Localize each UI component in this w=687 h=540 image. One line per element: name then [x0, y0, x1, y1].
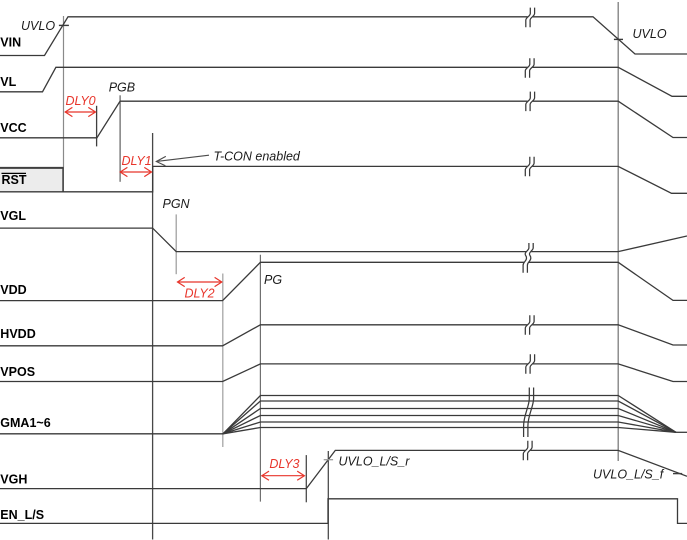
svg-text:VGH: VGH	[0, 472, 27, 486]
dimension arrow DLY2	[178, 277, 222, 286]
break mark VIN	[526, 8, 535, 28]
svg-text:GMA1~6: GMA1~6	[0, 416, 50, 430]
event line E9 EN_L/S rise extension (x=327.7)	[327, 451, 329, 540]
event line E3 PGB (x=120.1)	[119, 95, 121, 182]
break mark RST	[525, 157, 534, 177]
break mark VGH	[523, 441, 532, 460]
svg-text:VDD: VDD	[0, 283, 26, 297]
wire VDD waveform	[0, 262, 687, 300]
svg-text:DLY3: DLY3	[269, 457, 299, 471]
wire GMA1~6 bundle	[0, 396, 687, 434]
break mark VGL+VDD	[523, 243, 533, 273]
wire VGL waveform	[0, 228, 687, 252]
svg-text:PG: PG	[264, 273, 282, 287]
svg-text:UVLO_L/S_r: UVLO_L/S_r	[339, 455, 411, 469]
svg-text:PGN: PGN	[163, 197, 191, 211]
wire VL waveform	[0, 67, 687, 96]
event line E10 UVLO fall (x=618.2)	[617, 2, 619, 461]
signal label RST (with overbar)	[2, 173, 27, 187]
event line E4 DLY0 end (x=96.9)	[96, 106, 98, 147]
break mark GMA1~6	[524, 388, 534, 438]
svg-text:UVLO_L/S_f: UVLO_L/S_f	[593, 468, 665, 482]
svg-text:VPOS: VPOS	[0, 365, 35, 379]
svg-text:DLY0: DLY0	[66, 94, 96, 108]
wire VIN waveform	[0, 17, 687, 56]
wire RST waveform	[0, 166, 687, 193]
dimension arrow DLY3	[262, 471, 305, 480]
event line E8 DLY3 end (x=305.8)	[305, 455, 307, 502]
break mark VPOS	[526, 354, 535, 374]
svg-text:PGB: PGB	[109, 81, 135, 95]
tick UVLO threshold on VIN fall	[614, 38, 623, 40]
break mark HVDD	[525, 315, 534, 335]
svg-text:RST: RST	[2, 173, 27, 187]
event line E5 PGN (x=175.8)	[175, 214, 177, 274]
RST indeterminate box	[0, 167, 64, 192]
svg-text:UVLO: UVLO	[633, 27, 667, 41]
svg-text:DLY1: DLY1	[122, 154, 152, 168]
event line E1 UVLO rise (x=63.5)	[63, 16, 65, 167]
svg-text:DLY2: DLY2	[185, 287, 215, 301]
break mark VL	[525, 58, 534, 77]
svg-text:VGL: VGL	[0, 209, 26, 223]
dimension arrow DLY0	[65, 107, 95, 116]
svg-text:VIN: VIN	[0, 36, 21, 50]
event line E2 T-CON / RST rise (x=152.7)	[152, 133, 154, 540]
svg-text:HVDD: HVDD	[0, 327, 35, 341]
annotation arrow T-CON enabled	[156, 155, 209, 166]
svg-text:UVLO: UVLO	[21, 19, 55, 33]
wire HVDD waveform	[0, 325, 687, 346]
wire VGH waveform	[0, 450, 687, 488]
wire EN_L/S waveform	[0, 499, 687, 524]
svg-text:T-CON enabled: T-CON enabled	[214, 150, 301, 164]
tick UVLO threshold on VIN rise	[59, 24, 69, 26]
dimension arrow DLY1	[120, 167, 151, 176]
event line E6 VDD rise start (x=222.6)	[222, 274, 224, 448]
event line E7 PG (x=260.4)	[259, 255, 261, 502]
tick UVLO_L/S_r threshold on VGH rise	[324, 459, 333, 461]
svg-text:VCC: VCC	[0, 121, 26, 135]
svg-text:VL: VL	[0, 75, 16, 89]
break mark VCC	[526, 92, 535, 112]
wire VCC waveform	[0, 101, 687, 138]
svg-text:EN_L/S: EN_L/S	[0, 508, 44, 522]
tick UVLO_L/S_f threshold on VGH fall	[673, 473, 682, 475]
wire VPOS waveform	[0, 364, 687, 382]
